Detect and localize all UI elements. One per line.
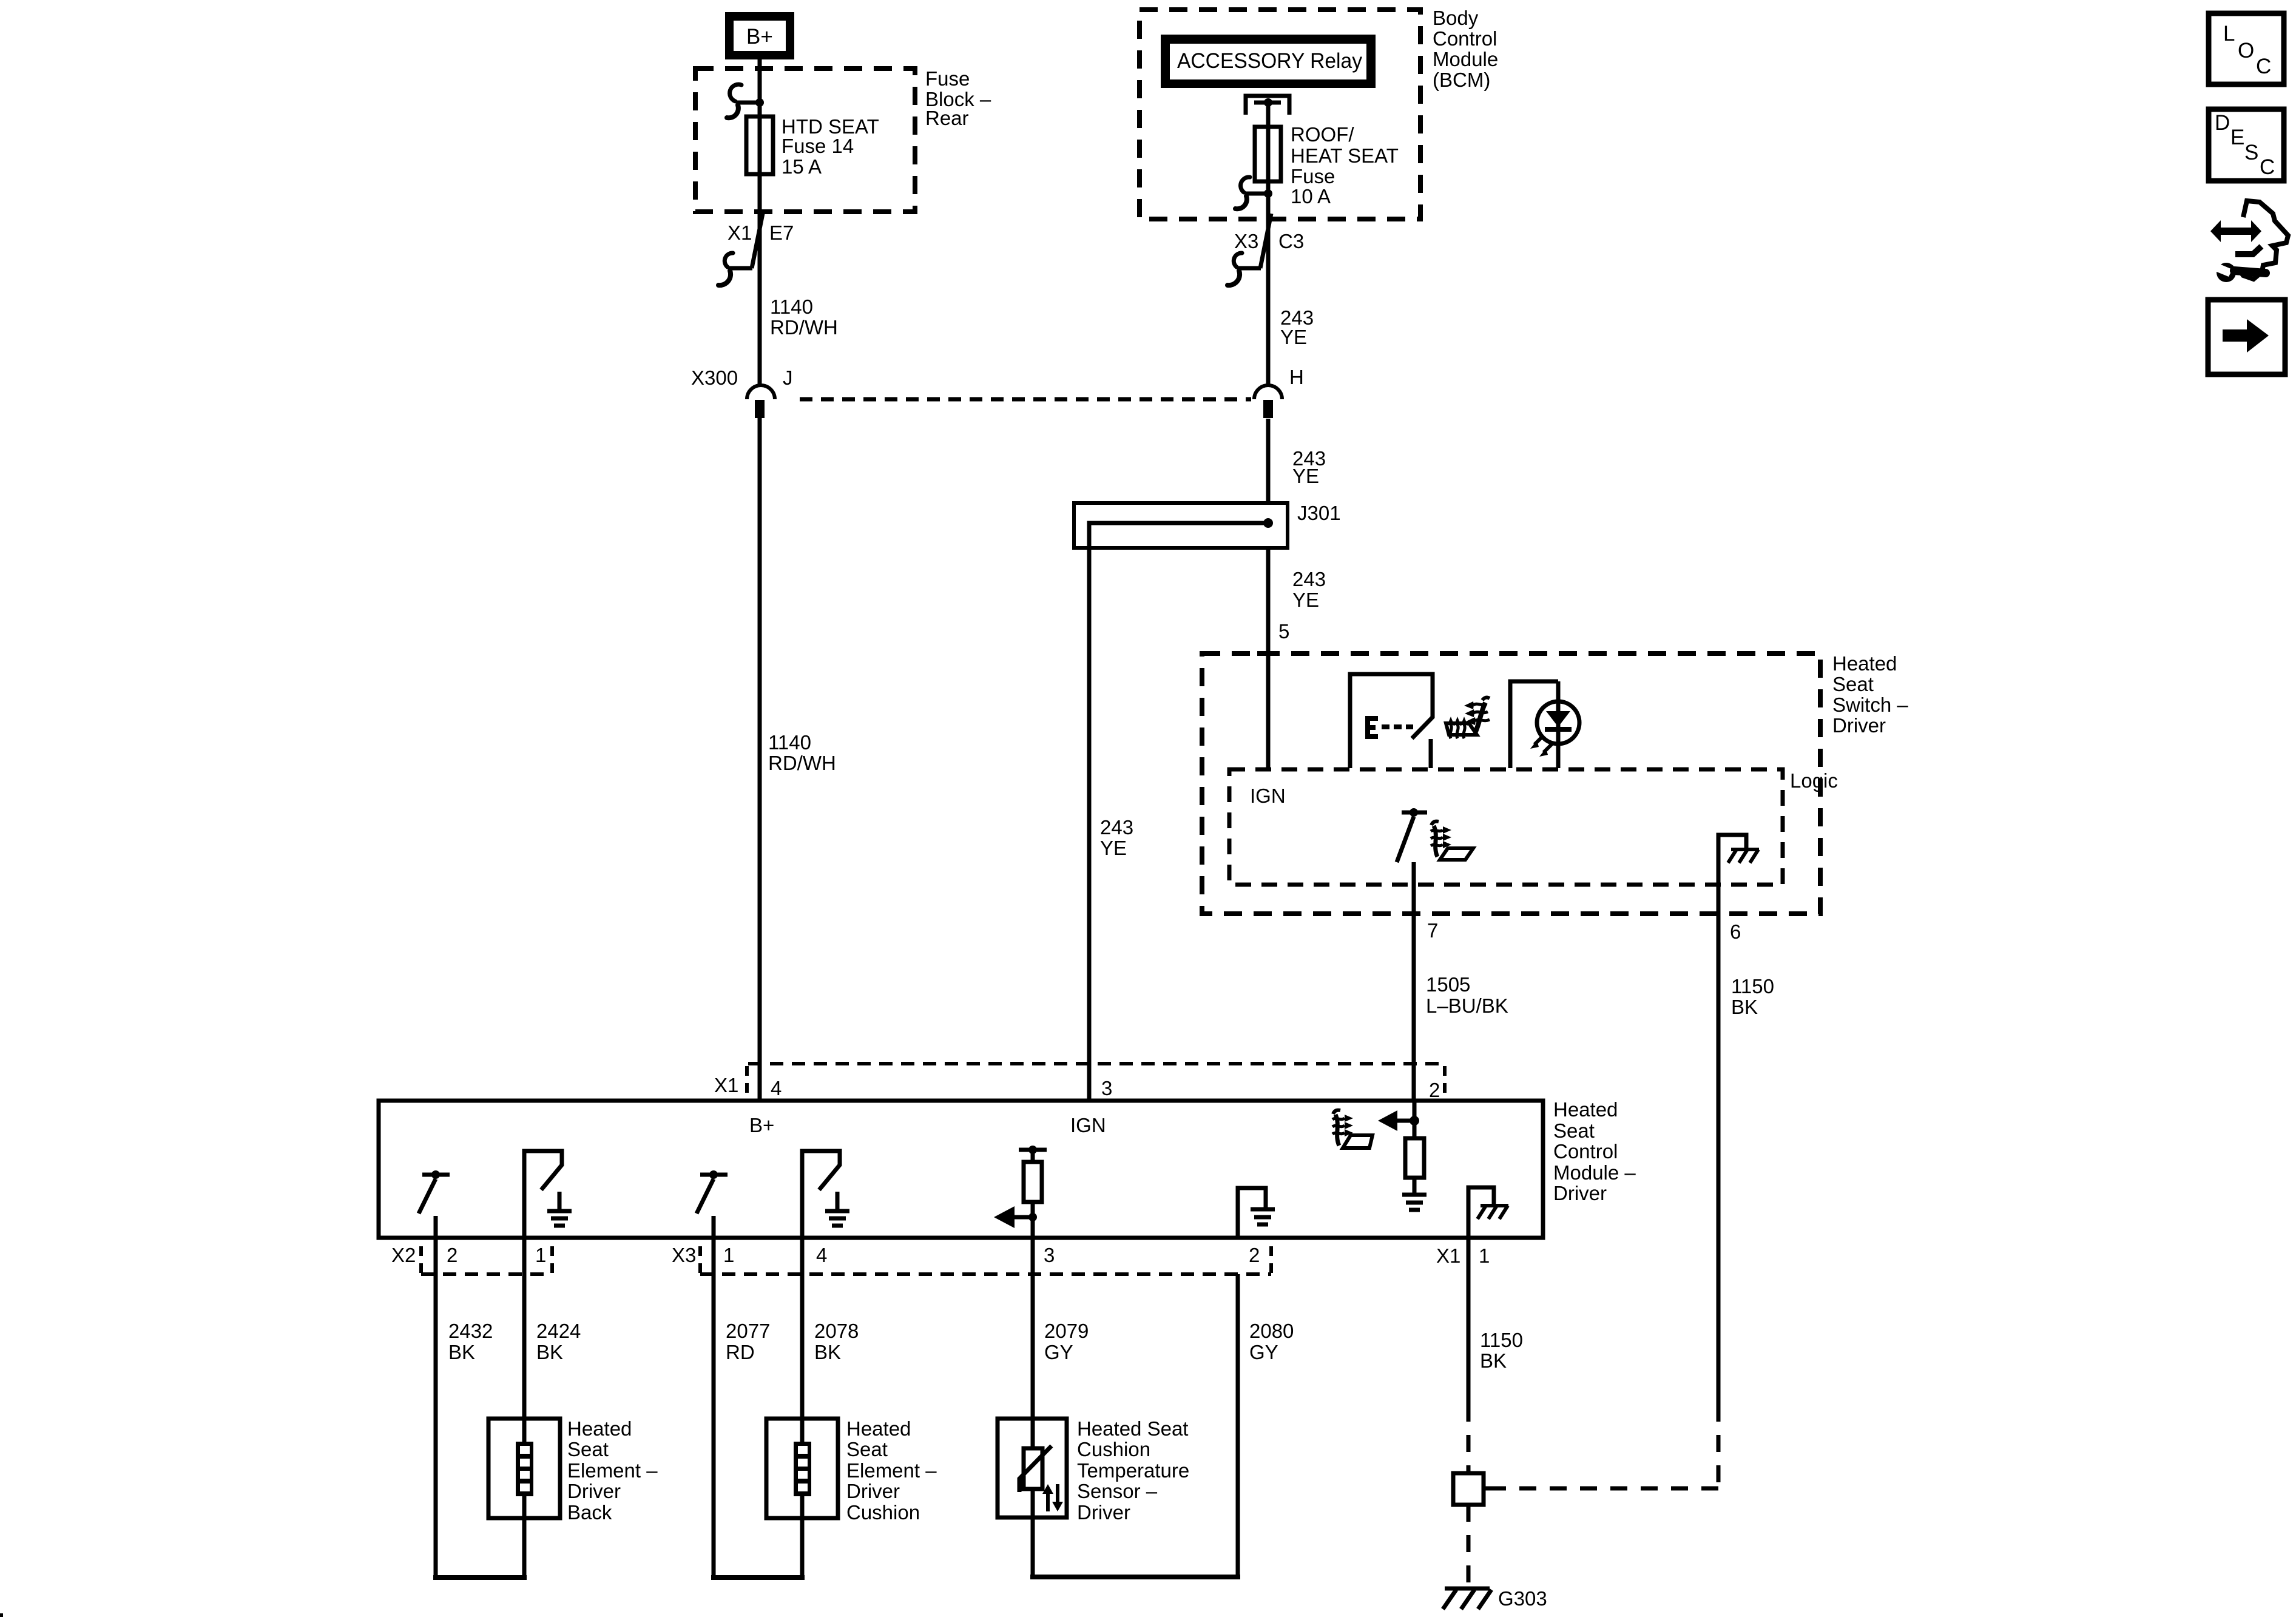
icon DESC box — [2209, 109, 2284, 181]
connector bracket X3 (module bottom) — [700, 1246, 1271, 1274]
svg-text:Seat: Seat — [1832, 673, 1874, 695]
svg-text:ROOF/: ROOF/ — [1291, 123, 1354, 146]
svg-text:RD/WH: RD/WH — [768, 752, 836, 774]
svg-text:E: E — [2230, 126, 2244, 149]
svg-text:243: 243 — [1292, 568, 1326, 590]
fuse ROOF/HEAT SEAT Fuse 10 A — [1255, 123, 1399, 208]
svg-text:Heated Seat: Heated Seat — [1077, 1417, 1188, 1440]
svg-text:Seat: Seat — [567, 1438, 609, 1460]
svg-text:RD/WH: RD/WH — [770, 316, 838, 339]
svg-text:Driver: Driver — [1553, 1182, 1607, 1204]
ground symbol in logic — [1718, 835, 1759, 885]
module heat request input pin 2 with pull resistor — [1378, 1101, 1427, 1210]
svg-text:2078: 2078 — [814, 1320, 859, 1342]
svg-text:Back: Back — [567, 1501, 612, 1524]
wire switch pin 6 down (circuit 1150 BK) — [1718, 885, 1774, 1405]
svg-text:1140: 1140 — [768, 731, 811, 754]
wire element cushion loop — [711, 1575, 805, 1580]
svg-text:2424: 2424 — [536, 1320, 581, 1342]
wire module X1-1 ground (circuit 1150 BK) — [1468, 1238, 1523, 1473]
svg-text:1: 1 — [535, 1244, 546, 1266]
fuse HTD SEAT Fuse 14 15 A — [746, 115, 879, 178]
svg-text:HEAT SEAT: HEAT SEAT — [1291, 144, 1399, 167]
wire B+ to X300 (circuit 1140 RD/WH) — [758, 59, 762, 384]
module switch output pin X3-1 — [697, 1170, 728, 1238]
svg-text:IGN: IGN — [1250, 785, 1286, 807]
wire module X2-2 (circuit 2432 BK) — [436, 1238, 493, 1578]
svg-text:2432: 2432 — [448, 1320, 493, 1342]
logic box — [1229, 769, 1838, 885]
svg-text:YE: YE — [1292, 589, 1319, 611]
svg-text:2077: 2077 — [726, 1320, 770, 1342]
inline connector X300 cavity J — [691, 366, 793, 418]
relay output contact — [1246, 96, 1289, 115]
wire J301 to switch pin 5 (circuit 243 YE) — [1268, 548, 1326, 769]
heated seat element driver back — [488, 1417, 658, 1578]
fuse clip junction below fuse — [1235, 177, 1272, 209]
svg-text:4: 4 — [816, 1244, 827, 1266]
heated seat element driver cushion — [766, 1417, 937, 1578]
dashed harness line X300 J to H — [800, 397, 1251, 402]
wire module X3-3 to sensor (circuit 2079 GY) — [1033, 1238, 1089, 1448]
module chassis ground pin X1-1 — [1468, 1187, 1508, 1238]
page mark — [0, 1613, 3, 1617]
svg-text:YE: YE — [1280, 326, 1307, 348]
svg-text:Cushion: Cushion — [1077, 1438, 1150, 1460]
svg-text:H: H — [1289, 366, 1304, 388]
svg-text:Body: Body — [1433, 7, 1479, 29]
connector terminal X1 E7 — [718, 214, 794, 285]
svg-text:X1: X1 — [728, 221, 752, 244]
wire relay to H (circuit 243 YE) — [1266, 103, 1271, 384]
svg-text:1140: 1140 — [770, 295, 813, 318]
heated seat cushion temperature sensor driver — [998, 1417, 1189, 1577]
svg-text:Switch –: Switch – — [1832, 694, 1908, 716]
svg-text:O: O — [2238, 39, 2254, 62]
power node B+ — [725, 12, 794, 59]
module ground switch pin X3-4 — [802, 1151, 849, 1238]
svg-text:B+: B+ — [746, 25, 773, 49]
svg-text:7: 7 — [1427, 919, 1438, 942]
svg-text:Seat: Seat — [846, 1438, 888, 1460]
wire X300 to module pin 4 (circuit 1140 RD/WH) — [760, 418, 836, 1102]
wire H to J301 (circuit 243 YE) — [1268, 419, 1326, 503]
svg-text:BK: BK — [814, 1341, 841, 1363]
splice J301 — [1074, 502, 1341, 548]
ground G303 — [1443, 1505, 1547, 1610]
svg-text:6: 6 — [1730, 920, 1741, 943]
icon connector service (arrow, connector, wrench) — [2209, 201, 2288, 282]
svg-text:2: 2 — [1429, 1079, 1440, 1101]
svg-text:Element –: Element – — [567, 1459, 658, 1482]
svg-text:GY: GY — [1249, 1341, 1278, 1363]
module switch output pin X2-2 — [419, 1170, 450, 1238]
svg-text:Driver: Driver — [567, 1480, 621, 1502]
wire label 243 YE upper — [1280, 306, 1314, 348]
svg-text:J: J — [783, 366, 793, 389]
svg-text:X1: X1 — [1436, 1244, 1460, 1267]
svg-text:X1: X1 — [714, 1074, 738, 1096]
svg-text:1505: 1505 — [1426, 973, 1470, 996]
wire module X3-4 to element (circuit 2078 BK) — [802, 1238, 859, 1442]
svg-text:4: 4 — [771, 1077, 782, 1099]
svg-text:Fuse: Fuse — [1291, 165, 1335, 187]
wire module X2-1 to element (circuit 2424 BK) — [524, 1238, 581, 1442]
svg-text:3: 3 — [1044, 1244, 1055, 1266]
heated seat icon (switch) — [1446, 698, 1490, 738]
latching switch with E (electronic) — [1350, 674, 1433, 768]
svg-text:G303: G303 — [1498, 1587, 1547, 1610]
svg-text:C3: C3 — [1278, 230, 1304, 252]
wire switch pin 7 to module pin 2 (circuit 1505 L-BU/BK) — [1414, 862, 1508, 1102]
svg-text:Rear: Rear — [925, 107, 969, 129]
switch in logic (to pin 7) — [1397, 808, 1427, 862]
svg-text:C: C — [2260, 155, 2275, 179]
svg-text:1150: 1150 — [1731, 975, 1774, 998]
svg-text:D: D — [2215, 111, 2230, 135]
svg-text:B+: B+ — [749, 1114, 774, 1136]
module ground switch pin X2-1 — [524, 1151, 572, 1238]
wire J301 to module pin 3 (circuit 243 YE) — [1089, 523, 1133, 1102]
svg-text:S: S — [2244, 141, 2258, 164]
svg-text:X300: X300 — [691, 366, 738, 389]
svg-text:5: 5 — [1278, 620, 1289, 643]
svg-text:L: L — [2223, 22, 2235, 46]
wire module X3-1 (circuit 2077 RD) — [714, 1238, 770, 1578]
svg-text:C: C — [2256, 55, 2271, 78]
svg-text:Driver: Driver — [1832, 714, 1886, 737]
svg-text:BK: BK — [448, 1341, 475, 1363]
svg-text:Heated: Heated — [1553, 1098, 1618, 1121]
svg-text:Fuse 14: Fuse 14 — [782, 135, 854, 157]
heated seat icon (logic) — [1431, 822, 1473, 860]
svg-text:YE: YE — [1100, 837, 1127, 859]
icon LOC box — [2209, 13, 2284, 84]
svg-text:2080: 2080 — [1249, 1320, 1294, 1342]
svg-text:Module –: Module – — [1553, 1161, 1636, 1184]
fuse clip junction in fuse block — [727, 84, 764, 118]
svg-text:Sensor –: Sensor – — [1077, 1480, 1158, 1502]
svg-text:Element –: Element – — [846, 1459, 937, 1482]
svg-text:ACCESSORY Relay: ACCESSORY Relay — [1177, 49, 1362, 73]
svg-text:2: 2 — [447, 1244, 458, 1266]
wire label 1140 RD/WH upper — [770, 295, 838, 339]
relay ACCESSORY Relay — [1161, 35, 1376, 88]
ground splice — [1453, 1473, 1493, 1505]
fuse block box: Fuse Block - Rear — [695, 67, 991, 212]
connector bracket X2 (module bottom) — [421, 1246, 552, 1274]
icon forward arrow box — [2208, 300, 2285, 374]
module bottom pin labels — [391, 1244, 1490, 1267]
wire sensor loop to pin X3-2 (circuit 2080 GY) — [1030, 1274, 1294, 1577]
svg-text:J301: J301 — [1297, 502, 1341, 524]
svg-text:Control: Control — [1553, 1140, 1618, 1163]
svg-text:RD: RD — [726, 1341, 755, 1363]
svg-text:Temperature: Temperature — [1077, 1459, 1189, 1482]
svg-text:BK: BK — [536, 1341, 563, 1363]
svg-text:L–BU/BK: L–BU/BK — [1426, 994, 1508, 1017]
connector terminal X3 C3 — [1227, 214, 1304, 285]
dashed ground path from switch pin 6 — [1493, 1405, 1718, 1488]
inline connector X300 cavity H — [1254, 366, 1304, 418]
svg-text:243: 243 — [1100, 816, 1133, 839]
svg-text:BK: BK — [1731, 996, 1758, 1018]
svg-text:Cushion: Cushion — [846, 1501, 920, 1524]
module temperature sense resistor pin X3-3 — [994, 1146, 1047, 1238]
svg-text:Heated: Heated — [567, 1417, 632, 1440]
svg-text:GY: GY — [1044, 1341, 1073, 1363]
svg-text:Seat: Seat — [1553, 1119, 1595, 1142]
svg-text:1: 1 — [723, 1244, 734, 1266]
svg-text:Control: Control — [1433, 27, 1497, 50]
heated seat switch box: Heated Seat Switch - Driver — [1202, 652, 1908, 914]
heated seat icon (module) — [1332, 1110, 1373, 1148]
svg-text:E7: E7 — [769, 221, 794, 244]
svg-text:X2: X2 — [391, 1244, 416, 1266]
svg-text:Heated: Heated — [1832, 652, 1897, 675]
svg-text:3: 3 — [1101, 1077, 1112, 1099]
svg-text:BK: BK — [1480, 1349, 1507, 1372]
svg-text:10 A: 10 A — [1291, 185, 1331, 208]
svg-text:2079: 2079 — [1044, 1320, 1089, 1342]
svg-text:Fuse: Fuse — [925, 67, 970, 90]
svg-text:(BCM): (BCM) — [1433, 69, 1490, 91]
svg-text:15 A: 15 A — [782, 155, 822, 178]
module box: Heated Seat Control Module - Driver — [379, 1098, 1636, 1238]
svg-text:2: 2 — [1249, 1244, 1260, 1266]
svg-text:YE: YE — [1292, 465, 1319, 487]
svg-text:IGN: IGN — [1070, 1114, 1106, 1136]
svg-text:Heated: Heated — [846, 1417, 911, 1440]
indicator LED — [1510, 681, 1579, 768]
module ground pin X3-2 — [1238, 1188, 1275, 1238]
svg-text:1150: 1150 — [1480, 1329, 1523, 1351]
svg-text:Logic: Logic — [1790, 769, 1838, 792]
connector bracket X1 (module top) — [714, 1064, 1445, 1101]
svg-text:X3: X3 — [672, 1244, 696, 1266]
svg-text:Driver: Driver — [846, 1480, 900, 1502]
svg-text:X3: X3 — [1234, 230, 1258, 252]
wire element back loop — [433, 1575, 527, 1580]
svg-text:Module: Module — [1433, 48, 1498, 70]
svg-text:Driver: Driver — [1077, 1501, 1130, 1524]
BCM box: Body Control Module — [1140, 7, 1498, 219]
svg-text:1: 1 — [1479, 1244, 1490, 1267]
